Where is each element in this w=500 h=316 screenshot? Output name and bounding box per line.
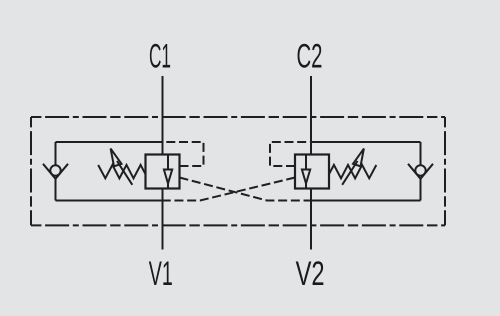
pilot diagonal from left valve to V2 line (dashed): [180, 178, 312, 201]
wire V1 vertical: [162, 189, 164, 250]
relief valve box U2: [295, 155, 329, 189]
spring S1 adjustment arrow shaft: [117, 161, 132, 185]
wire left group left lower: [55, 179, 57, 201]
wire left group top: [56, 141, 163, 143]
pilot line loop right (dashed): [270, 142, 311, 166]
check valve CV2 ball: [415, 165, 425, 175]
valve body enclosure right: [444, 117, 446, 225]
svg-text:V2: V2: [296, 255, 325, 293]
check valve CV2 seat: [408, 164, 433, 179]
spring S2 adjustment arrow head: [353, 149, 364, 167]
svg-text:C2: C2: [297, 38, 323, 76]
wire right group right lower: [420, 179, 422, 201]
spring S2 adjustment arrow shaft: [342, 161, 357, 185]
wire right group bottom: [311, 200, 421, 202]
valve body enclosure left: [30, 117, 32, 225]
wire C2 vertical: [310, 76, 312, 155]
check valve CV1 seat: [43, 164, 68, 179]
spring S2: [329, 165, 376, 178]
check valve CV1 ball: [50, 165, 60, 175]
wire right group top: [311, 141, 421, 143]
spring S1: [98, 165, 145, 178]
valve body enclosure bottom: [31, 224, 445, 226]
spring S1 adjustment arrow head: [111, 149, 122, 167]
svg-text:V1: V1: [149, 255, 173, 293]
relief valve U2 flow arrow: [305, 155, 307, 170]
pilot diagonal from right valve to V1 line (dashed): [163, 178, 296, 201]
svg-text:C1: C1: [149, 38, 171, 76]
wire left group bottom: [56, 200, 163, 202]
wire V2 vertical: [310, 189, 312, 250]
wire right group right upper: [420, 142, 422, 165]
pilot line loop left (dashed): [163, 142, 204, 166]
wire left group left upper: [55, 142, 57, 165]
valve body enclosure (dash-dot border) top: [31, 116, 445, 118]
relief valve U1 flow arrow: [167, 155, 169, 170]
wire C1 vertical: [162, 76, 164, 155]
relief valve box U1: [146, 155, 180, 189]
